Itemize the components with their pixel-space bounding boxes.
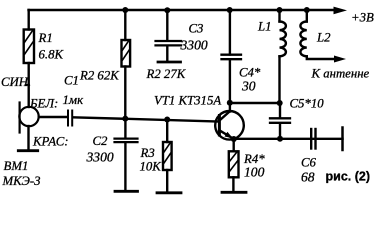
wire C3 top lead xyxy=(166,10,168,40)
wire microphone to C1 xyxy=(39,116,67,118)
svg-text:30: 30 xyxy=(241,79,256,94)
capacitor C1 xyxy=(67,111,69,126)
inductor L1 xyxy=(278,10,280,22)
svg-text:МКЭ-3: МКЭ-3 xyxy=(2,174,41,188)
ground (R4) xyxy=(222,191,246,194)
svg-text:68: 68 xyxy=(301,170,315,185)
wire C4 top lead xyxy=(229,10,231,55)
wire tick (СИН) xyxy=(26,84,30,86)
node dot (R2 top) xyxy=(122,7,128,13)
svg-text:R2 27К: R2 27К xyxy=(146,67,187,81)
svg-text:6.8К: 6.8К xyxy=(39,48,65,62)
microphone BM1 xyxy=(19,107,38,126)
svg-text:С4*: С4* xyxy=(239,66,261,80)
node dot (collector) xyxy=(227,100,233,106)
wire R4 bottom lead xyxy=(232,177,234,192)
svg-text:3300: 3300 xyxy=(180,38,208,53)
resistor R3 xyxy=(163,142,172,170)
svg-text:100: 100 xyxy=(244,165,265,180)
node dot (C5 bottom) xyxy=(277,136,283,142)
capacitor C3 xyxy=(156,40,182,42)
node dot (base R2/C2) xyxy=(122,116,128,122)
wire C4 bottom lead to collector node xyxy=(229,60,231,112)
svg-text:+3В: +3В xyxy=(351,11,374,25)
capacitor C4 xyxy=(222,54,242,56)
wire C5 top lead xyxy=(279,103,281,118)
transistor VT1 xyxy=(215,111,244,140)
svg-text:рис. (2): рис. (2) xyxy=(326,170,371,184)
svg-text:С5*10: С5*10 xyxy=(290,97,325,111)
wire emitter line xyxy=(234,138,343,140)
resistor R1 xyxy=(24,30,34,64)
wire R3 top lead xyxy=(166,120,168,143)
ground (R3) xyxy=(157,191,181,194)
svg-text:ВМ1: ВМ1 xyxy=(4,159,29,173)
svg-text:С1: С1 xyxy=(64,74,79,88)
inductor L2 xyxy=(306,10,308,22)
svg-text:10К: 10К xyxy=(140,160,163,174)
node dot (C3 top) xyxy=(164,7,170,13)
node dot (L2 top) xyxy=(304,7,310,13)
node dot (C4 top) xyxy=(227,7,233,13)
wire microphone bottom lead xyxy=(27,126,29,150)
arrow +3V xyxy=(334,7,348,15)
svg-text:3300: 3300 xyxy=(86,150,114,165)
wire L2 to antenna arrow xyxy=(307,56,337,59)
wire R2 bottom lead xyxy=(124,67,126,119)
capacitor C5 xyxy=(270,117,290,119)
resistor R4 xyxy=(229,151,239,177)
svg-text:С2: С2 xyxy=(93,134,109,148)
wire R3 bottom lead xyxy=(166,170,168,193)
ground (C3) xyxy=(158,61,181,64)
svg-text:КРАС:: КРАС: xyxy=(32,135,69,149)
svg-text:С3: С3 xyxy=(189,22,204,36)
wire R1 top lead xyxy=(28,10,30,30)
wire R1 bottom lead to microphone xyxy=(28,63,30,107)
ground (C2) xyxy=(115,190,138,193)
svg-text:L2: L2 xyxy=(316,31,331,45)
svg-text:VT1 КТ315А: VT1 КТ315А xyxy=(154,94,221,108)
svg-text:R1: R1 xyxy=(38,31,53,45)
capacitor C2 xyxy=(115,138,138,140)
wire R2 top lead xyxy=(124,10,126,40)
capacitor C6 xyxy=(310,129,312,149)
wire C5 bottom lead xyxy=(279,124,281,139)
svg-text:R3: R3 xyxy=(140,146,155,160)
wire collector node to L1 xyxy=(230,102,280,104)
svg-text:L1: L1 xyxy=(257,20,272,34)
ground (microphone) xyxy=(18,149,37,152)
svg-text:К антенне: К антенне xyxy=(311,67,370,81)
wire C2 bottom lead xyxy=(124,143,126,191)
node dot (emitter) xyxy=(231,136,237,142)
svg-text:БЕЛ:: БЕЛ: xyxy=(29,97,58,111)
node dot (L1 bottom) xyxy=(277,100,283,106)
wire base line C1 to VT1 xyxy=(73,117,218,121)
wire top +3V rail xyxy=(29,9,336,11)
svg-text:СИН.: СИН. xyxy=(1,75,31,89)
node dot (L1 top) xyxy=(277,7,283,13)
arrow to antenna xyxy=(334,56,346,63)
svg-text:1мк: 1мк xyxy=(63,93,85,107)
resistor R2 xyxy=(122,40,131,67)
terminal bar (antenna output) xyxy=(341,128,344,151)
wire R4 top lead xyxy=(232,139,234,151)
node dot (base R3) xyxy=(164,117,170,123)
wire C2 top lead xyxy=(124,119,126,138)
svg-text:R2 62К: R2 62К xyxy=(79,69,120,83)
svg-text:С6: С6 xyxy=(301,156,317,170)
wire C3 bottom lead xyxy=(166,46,168,62)
